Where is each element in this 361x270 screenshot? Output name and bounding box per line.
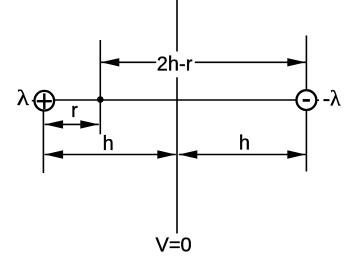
svg-text:2h-r: 2h-r <box>157 53 193 75</box>
dimension r: left arrowhead <box>45 120 64 128</box>
svg-text:λ: λ <box>17 86 30 110</box>
svg-text:r: r <box>71 100 78 122</box>
extension line below left charge <box>42 104 44 173</box>
plus sign vertical bar <box>43 93 45 109</box>
dimension 2h-r: right line segment <box>195 61 306 63</box>
dimension h (left): line <box>45 154 176 156</box>
dimension h (left): left arrowhead <box>45 150 64 158</box>
dimension r: right arrowhead <box>80 120 99 128</box>
dimension h (left): right arrowhead <box>157 150 176 158</box>
extension line through node P at x=100 <box>99 40 101 134</box>
node P (junction dot) <box>97 96 104 103</box>
image plane V=0 (upper segment of center line) <box>176 0 178 52</box>
svg-text:-λ: -λ <box>323 86 341 111</box>
plus sign horizontal bar <box>37 100 52 102</box>
extension line through right charge <box>305 36 307 172</box>
image plane V=0 (lower segment of center line) <box>176 77 178 233</box>
dimension h (right): line <box>179 154 306 156</box>
wire: horizontal axis joining the two line charges <box>44 99 307 101</box>
dimension r: line <box>45 123 99 125</box>
dimension h (right): right arrowhead <box>287 150 306 158</box>
dimension 2h-r: left line segment <box>101 61 156 63</box>
stub at right edge of negative charge circle <box>316 99 319 101</box>
svg-text:h: h <box>103 133 114 155</box>
negative line charge symbol (circle) <box>297 90 317 110</box>
dimension h (right): left arrowhead <box>179 150 198 158</box>
svg-text:V=0: V=0 <box>156 235 192 257</box>
svg-text:h: h <box>239 132 250 154</box>
minus sign <box>303 99 310 102</box>
dimension 2h-r: right arrowhead <box>287 58 306 66</box>
stub at left edge of positive charge circle <box>32 100 35 102</box>
dimension 2h-r: left arrowhead <box>101 58 120 66</box>
positive line charge symbol (circle) <box>35 91 55 111</box>
